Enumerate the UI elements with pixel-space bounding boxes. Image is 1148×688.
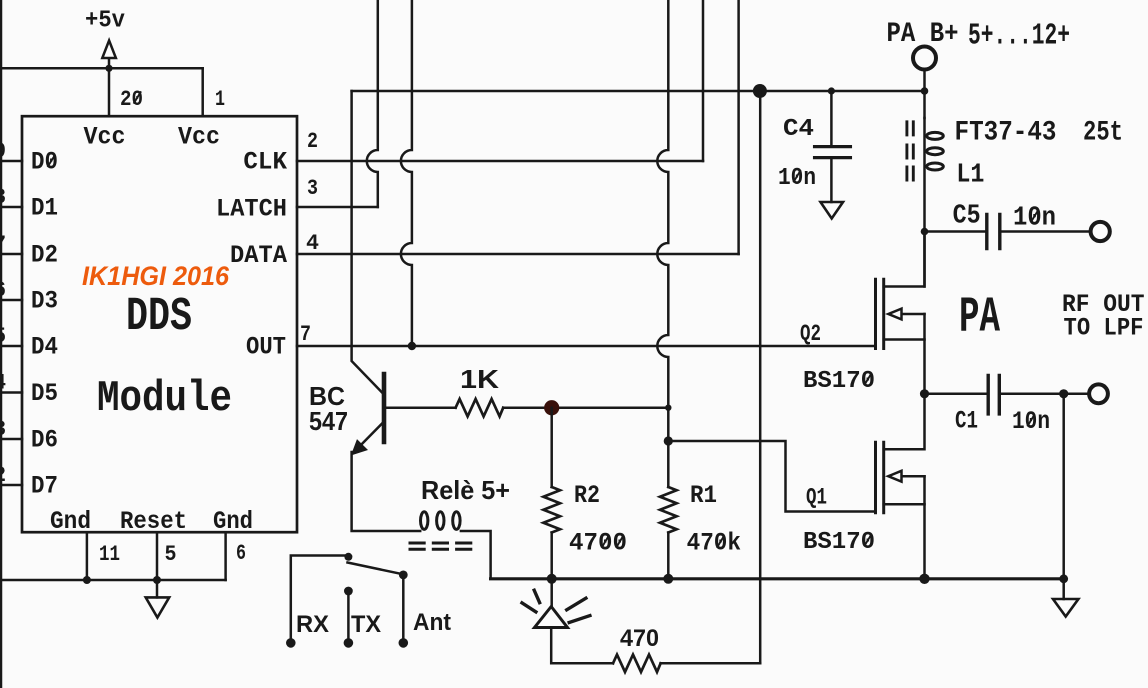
wire stub to DDS ground symbol <box>156 580 159 597</box>
wire R1 top lead <box>667 441 670 487</box>
relay TX contact wire <box>347 591 350 643</box>
svg-text:Reset: Reset <box>120 507 187 536</box>
svg-text:9: 9 <box>0 139 6 164</box>
svg-text:FT37-43: FT37-43 <box>955 118 1057 149</box>
wire DDS Reset pin5 <box>156 532 159 580</box>
transistor Q BC547 emitter with arrow <box>356 422 385 451</box>
wire C5 left lead <box>925 230 987 233</box>
svg-text:10n: 10n <box>778 165 816 192</box>
svg-text:Q2: Q2 <box>800 321 821 347</box>
wire LED feed riser <box>759 91 762 663</box>
svg-text:TX: TX <box>351 611 381 638</box>
wire C1 node to ground rail <box>1062 394 1065 579</box>
junction bias riser / Q1 gate branch <box>664 436 673 445</box>
transistor Q BC547 collector wire <box>352 91 384 395</box>
terminal TX top <box>344 587 353 596</box>
svg-text:RX: RX <box>296 611 329 638</box>
svg-text:DATA: DATA <box>230 241 287 270</box>
wire R2 to ground rail <box>550 533 553 579</box>
svg-text:BS170: BS170 <box>803 368 875 395</box>
relay switch arm <box>348 563 403 575</box>
IC U1 DDS module box <box>22 116 297 532</box>
svg-text:L1: L1 <box>956 161 984 191</box>
wire rail stub to ground symbol <box>1062 579 1065 599</box>
wire C1 right lead <box>999 393 1088 396</box>
slashed-zero tick marks (CAD font zeros) <box>48 92 1038 547</box>
terminal Ant bottom <box>399 638 409 648</box>
junction ground rail / R1 <box>663 574 673 584</box>
junction pin5 / ground net <box>153 576 161 584</box>
wire Q1 source lead <box>884 503 925 506</box>
wire Q1 source/body to ground rail <box>923 476 926 579</box>
junction pin20/+5v <box>105 65 112 72</box>
wire bias riser with hops over CLK DATA OUT <box>657 0 668 441</box>
resistor 470 <box>613 655 661 672</box>
capacitor C4 <box>815 147 851 158</box>
svg-text:547: 547 <box>309 406 348 436</box>
terminal C1 output <box>1089 384 1108 403</box>
resistor R1 <box>660 487 677 533</box>
svg-text:10n: 10n <box>1013 204 1056 234</box>
svg-text:3: 3 <box>0 417 6 442</box>
svg-text:Module: Module <box>97 374 232 424</box>
svg-text:Vcc: Vcc <box>178 123 220 152</box>
svg-text:R1: R1 <box>690 481 717 510</box>
wire node K to R2 <box>550 408 553 487</box>
svg-text:D7: D7 <box>31 472 58 501</box>
svg-text:6: 6 <box>236 541 246 566</box>
svg-text:25t: 25t <box>1083 118 1123 149</box>
wire Q2 source lead <box>884 338 925 341</box>
svg-text:IK1HGI 2016: IK1HGI 2016 <box>82 261 230 291</box>
wire ground rail <box>491 577 1064 580</box>
svg-text:Ant: Ant <box>413 609 451 636</box>
svg-text:D3: D3 <box>31 287 58 316</box>
wire pin1 Vcc <box>201 68 204 116</box>
svg-text:Relè 5+: Relè 5+ <box>421 475 510 505</box>
wire R1 to ground rail <box>667 533 670 579</box>
wire C4 bottom lead <box>830 159 833 202</box>
svg-text:2: 2 <box>0 463 6 488</box>
svg-text:+5v: +5v <box>85 8 125 35</box>
junction C1 output node <box>1059 389 1068 398</box>
wire left-edge bus (cropped) <box>0 0 2 688</box>
wire PA B+ to rail <box>923 70 926 119</box>
capacitor C5 <box>987 215 1000 249</box>
wire BC547 emitter to relay coil <box>352 452 421 531</box>
junction OUT riser <box>408 342 416 350</box>
svg-text:2: 2 <box>307 129 318 154</box>
svg-text:470: 470 <box>620 625 659 652</box>
resistor 1K <box>456 399 504 416</box>
wire C4 top lead <box>830 91 833 145</box>
terminal C5 output <box>1091 222 1110 241</box>
inductor L1 <box>923 118 926 287</box>
svg-text:Vcc: Vcc <box>84 123 126 152</box>
junction relay arm / Ant <box>399 571 408 580</box>
svg-text:5: 5 <box>0 324 6 349</box>
junction B+ rail / L1 <box>921 87 929 95</box>
svg-text:CLK: CLK <box>243 148 287 177</box>
wire pin8 D1 stub <box>0 206 22 209</box>
transistor Q2 body arrow <box>888 309 924 320</box>
svg-text:LATCH: LATCH <box>216 195 287 224</box>
svg-text:4: 4 <box>0 371 6 396</box>
transistor Q2 channel line <box>882 279 885 348</box>
wire CLK riser <box>702 0 705 161</box>
wire pin6 D3 stub <box>0 299 22 302</box>
wire C1 left lead <box>925 393 989 396</box>
svg-text:OUT: OUT <box>246 333 286 362</box>
svg-text:20: 20 <box>120 87 143 112</box>
transistor Q1 channel line <box>882 442 885 513</box>
wire 470 to LED feed riser <box>661 662 761 665</box>
LED D1 cathode wire <box>551 628 613 664</box>
junction C5 node <box>921 228 929 236</box>
wire pin3 D6 stub <box>0 438 22 441</box>
wire pin7 D2 stub <box>0 253 22 256</box>
svg-text:4: 4 <box>306 231 319 256</box>
wire OUT riser with hops over CLK and DATA <box>401 0 412 346</box>
svg-text:PA: PA <box>959 290 1000 347</box>
svg-text:D6: D6 <box>31 426 58 455</box>
junction ground rail / R2 LED <box>547 574 557 584</box>
wire pin5 D4 stub <box>0 345 22 348</box>
LED D1 anode wire <box>550 579 553 607</box>
relay contact RX wire <box>291 556 349 643</box>
resistor R2 <box>543 487 560 533</box>
wire Q2 source/body to C1 node <box>923 314 926 394</box>
wire pin20 Vcc <box>108 68 111 116</box>
junction pin11 / ground net <box>83 576 91 584</box>
junction B+ rail / C4 <box>828 87 835 94</box>
wire DDS ground net <box>0 579 226 582</box>
svg-text:1: 1 <box>215 87 225 112</box>
capacitor C1 <box>988 375 999 414</box>
wire LATCH riser with hop over CLK <box>367 0 378 207</box>
svg-text:R2: R2 <box>574 481 600 510</box>
wire LATCH net pin3 to riser <box>297 206 378 209</box>
junction node K (maroon) <box>544 400 559 415</box>
wire BC547 base to 1K <box>384 406 456 409</box>
svg-text:D2: D2 <box>31 241 58 270</box>
svg-text:11: 11 <box>99 542 120 567</box>
wire Q1 drain lead <box>884 394 925 450</box>
power +5v arrow symbol <box>102 41 116 69</box>
LED D1 light rays <box>522 590 590 622</box>
svg-text:DDS: DDS <box>126 291 192 344</box>
svg-text:5: 5 <box>165 542 177 567</box>
junction C1 node <box>920 389 929 398</box>
svg-text:Q1: Q1 <box>806 485 827 511</box>
junction ground rail end <box>1059 574 1068 583</box>
transistor Q1 gate line <box>874 442 877 513</box>
svg-text:D5: D5 <box>31 379 58 408</box>
wire C5 right lead <box>1000 230 1091 233</box>
wire DATA net pin4 to riser <box>297 253 739 256</box>
wire Q2 drain lead <box>884 232 925 287</box>
svg-text:6: 6 <box>0 278 6 303</box>
wire OUT net pin7 to Q2 gate <box>297 345 876 348</box>
terminal RX <box>286 638 296 648</box>
ground symbol DDS <box>146 597 170 617</box>
svg-text:C5: C5 <box>953 202 981 232</box>
svg-text:D1: D1 <box>31 194 58 223</box>
junction 1K/bias riser <box>665 405 671 411</box>
LED D1 triangle <box>535 607 568 628</box>
wire CLK net pin2 to riser <box>297 160 703 163</box>
svg-text:1K: 1K <box>460 364 499 394</box>
wire DDS Gnd pin6 <box>224 532 227 580</box>
relay K1 coil <box>421 512 428 530</box>
wire pin9 D0 stub <box>0 160 22 163</box>
relay K1 core marks <box>410 543 471 549</box>
wire pin2 D7 stub <box>0 484 22 487</box>
transistor Q BC547 base bar <box>382 374 387 442</box>
svg-text:TO LPF: TO LPF <box>1064 314 1144 343</box>
svg-text:10n: 10n <box>1012 407 1050 436</box>
terminal TX bottom <box>344 638 354 648</box>
svg-text:D4: D4 <box>31 333 58 362</box>
transistor Q1 body arrow <box>888 471 924 482</box>
wire DATA riser <box>737 0 740 254</box>
svg-text:7: 7 <box>0 232 6 257</box>
svg-text:PA B+: PA B+ <box>887 19 959 50</box>
svg-text:8: 8 <box>0 185 6 210</box>
wire pin4 D5 stub <box>0 391 22 394</box>
inductor L1 core marks <box>907 122 913 180</box>
ground symbol C4 <box>821 202 844 219</box>
terminal PA B+ <box>913 47 936 70</box>
svg-text:Gnd: Gnd <box>50 507 91 536</box>
relay Ant wire <box>402 575 405 643</box>
svg-text:5+...12+: 5+...12+ <box>968 19 1070 54</box>
junction B+ rail / LED feed <box>753 84 767 98</box>
wire relay coil to ground rail <box>461 531 491 579</box>
node +5v supply wire <box>0 67 203 70</box>
svg-text:470k: 470k <box>687 529 741 558</box>
svg-text:7: 7 <box>300 322 311 347</box>
transistor Q2 gate line <box>874 279 877 348</box>
svg-text:D0: D0 <box>31 148 58 177</box>
svg-text:3: 3 <box>307 176 318 201</box>
wire DDS Gnd pin11 <box>86 532 89 580</box>
wire Q1 gate net <box>668 441 875 512</box>
junction Q1 source / ground rail <box>919 574 929 584</box>
svg-text:BS170: BS170 <box>803 529 875 556</box>
ground symbol right <box>1053 599 1078 617</box>
wire 1K to bias riser <box>503 406 668 409</box>
svg-text:C4: C4 <box>783 116 814 143</box>
junction relay arm pivot <box>344 553 352 561</box>
svg-text:Gnd: Gnd <box>213 507 253 536</box>
wire B+ rail <box>352 90 925 93</box>
svg-text:C1: C1 <box>955 407 978 436</box>
svg-text:4700: 4700 <box>569 529 627 558</box>
